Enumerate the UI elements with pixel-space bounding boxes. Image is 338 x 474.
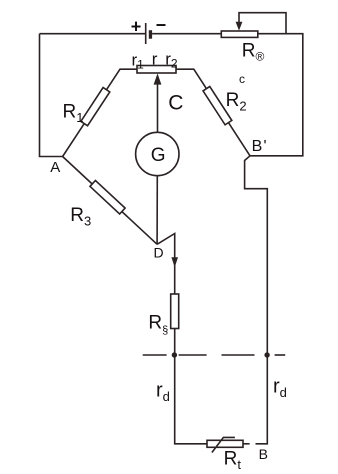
wire Rs down to bottom-left corner and to Rt — [175, 329, 207, 444]
junction dot left — [172, 352, 177, 357]
svg-text:D: D — [154, 245, 164, 261]
dashed boundary line segment 3 — [222, 354, 255, 356]
dashed boundary line segment 2 — [179, 354, 207, 356]
rheostat wiper arrow and jumper wire — [239, 13, 286, 34]
rheostat R box — [221, 31, 257, 37]
wire D jog down to Rs — [157, 234, 175, 295]
svg-text:r2: r2 — [165, 49, 178, 70]
wire pot left end to node A (carries R1) — [63, 69, 137, 156]
svg-text:R®: R® — [242, 40, 265, 63]
svg-text:B: B — [259, 446, 268, 462]
svg-text:C: C — [168, 91, 183, 114]
svg-text:R§: R§ — [148, 313, 168, 337]
svg-text:R1: R1 — [63, 102, 84, 126]
wire B' jog down right side to bottom and to Rt — [245, 156, 268, 444]
svg-text:r1: r1 — [132, 50, 145, 71]
wire battery to rheostat — [152, 33, 221, 35]
dashed boundary line segment 1 — [143, 354, 167, 356]
wire galvanometer to node D — [156, 176, 158, 245]
current direction arrow (down) — [171, 257, 178, 267]
svg-text:rd: rd — [156, 379, 170, 404]
resistor R3 — [90, 181, 125, 214]
galvanometer U1 circle — [136, 132, 179, 175]
svg-text:r: r — [152, 49, 158, 68]
dashed boundary line segment 4 — [275, 354, 286, 356]
svg-text:R2: R2 — [226, 90, 247, 114]
svg-text:G: G — [151, 145, 166, 166]
resistor R1 — [81, 88, 110, 126]
svg-text:c: c — [239, 72, 245, 86]
wire Rt right stub — [243, 443, 250, 445]
resistor Rs — [171, 294, 179, 329]
battery negative plate — [149, 30, 152, 39]
wire top from corner to battery — [40, 33, 146, 35]
junction dot right — [264, 352, 269, 357]
wire node A to node D (carries R3) — [63, 157, 158, 245]
svg-text:B': B' — [252, 138, 267, 155]
svg-text:Rt: Rt — [224, 449, 242, 473]
wire left vertical (top-left corner down to A level) — [40, 34, 63, 157]
wire rheostat right to top-right corner, down right edge to B' level — [250, 34, 303, 156]
wiper arrow up to C contact and wire down to galvanometer — [157, 84, 159, 133]
thermistor Rt box — [207, 440, 243, 447]
battery positive plate — [145, 23, 147, 44]
svg-text:−: − — [156, 15, 167, 35]
svg-text:+: + — [131, 17, 142, 37]
svg-text:A: A — [50, 159, 60, 176]
resistor R2 — [203, 86, 232, 124]
wire pot right end to node B' (carries R2) — [176, 69, 250, 156]
svg-text:R3: R3 — [70, 205, 91, 229]
thermistor diagonal stroke — [212, 437, 235, 452]
svg-text:rd: rd — [273, 375, 287, 400]
slide-wire potentiometer box r1 r r2 — [137, 66, 176, 74]
